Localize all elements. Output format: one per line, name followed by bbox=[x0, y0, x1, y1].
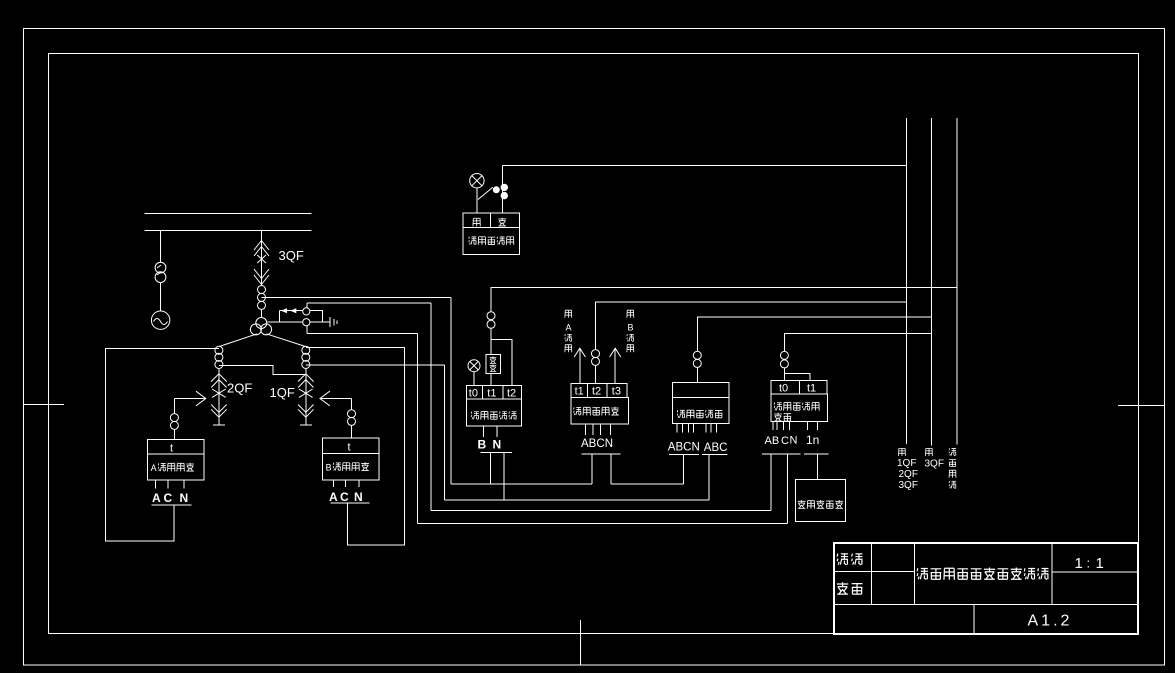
零序 underline right bbox=[804, 453, 828, 455]
CT oval A branch bbox=[170, 414, 178, 430]
wire oval to header 零序 bbox=[784, 368, 786, 380]
wire E stub up from PT top bbox=[306, 303, 308, 308]
wire gas right leg bbox=[502, 166, 504, 214]
wire 通风 feed bbox=[491, 287, 957, 311]
label 厂用备用变保护配置图 bbox=[917, 567, 1048, 579]
box B terminals bbox=[334, 480, 360, 487]
差动 terminals bbox=[677, 423, 716, 432]
label 跳3QF bbox=[925, 448, 944, 469]
wire CT interconnect step bbox=[219, 366, 306, 375]
CT stack 3QF bbox=[258, 286, 266, 310]
wire CT to breaker 2QF bbox=[218, 369, 220, 390]
svg-text:C: C bbox=[781, 435, 789, 447]
wire PT pair to ground bbox=[310, 321, 330, 323]
wire oval to box B bbox=[351, 425, 353, 438]
wire arrow corner to CT oval A bbox=[173, 399, 175, 414]
svg-text:A: A bbox=[566, 323, 572, 333]
svg-text:1: 1 bbox=[1096, 555, 1104, 572]
wire D vertical bbox=[444, 365, 446, 500]
wire arrow line bbox=[279, 310, 302, 312]
svg-text:N: N bbox=[605, 438, 613, 450]
wire oval to box A bbox=[173, 429, 175, 439]
svg-text:B: B bbox=[326, 463, 332, 473]
svg-text:C: C bbox=[340, 490, 349, 504]
wire 零序 to U4 bbox=[786, 454, 788, 524]
breaker 3QF symbol bbox=[254, 241, 269, 285]
svg-text:2QF: 2QF bbox=[899, 469, 918, 480]
breaker 1QF symbol bbox=[298, 374, 314, 425]
label 校核 bbox=[837, 582, 863, 594]
wire lamp drop bbox=[476, 188, 478, 213]
wire 1n to 电压操作箱 bbox=[817, 454, 819, 479]
relay box 商备变过流 bbox=[571, 383, 629, 423]
wire oval to 油温 bbox=[490, 328, 492, 354]
wire 通风 to U1 bbox=[490, 453, 492, 484]
svg-text:B: B bbox=[478, 438, 487, 452]
bus U4 bbox=[418, 523, 788, 525]
svg-text:t: t bbox=[170, 443, 173, 455]
relay box B分支过流 bbox=[322, 438, 379, 480]
svg-text:t0: t0 bbox=[469, 388, 478, 400]
wire 差动 to seg2 bbox=[683, 455, 685, 485]
过流 underline bbox=[582, 453, 621, 455]
node cluster junction bbox=[250, 318, 271, 335]
wire diagonal to 2QF bbox=[219, 334, 257, 347]
box 油温 bbox=[486, 354, 501, 373]
label 厂用切换 bbox=[949, 448, 956, 488]
wire transformer to source bbox=[160, 283, 162, 311]
svg-text:t2: t2 bbox=[592, 386, 601, 398]
label 商备变差动 bbox=[677, 410, 722, 418]
wire B vertical bbox=[417, 334, 419, 524]
transformer T1 bbox=[155, 262, 166, 282]
svg-text:t3: t3 bbox=[612, 386, 621, 398]
wire oval to header 过流 bbox=[595, 365, 597, 383]
零序 underline left bbox=[762, 453, 801, 455]
svg-text:3QF: 3QF bbox=[279, 248, 304, 263]
trip bus v2 bbox=[931, 118, 933, 446]
lamp 通风 bbox=[468, 360, 480, 372]
trip bus v1 bbox=[905, 118, 907, 444]
CT oval 通风 bbox=[487, 312, 495, 329]
label B分支过流 bbox=[326, 462, 369, 472]
CT oval 过流 bbox=[592, 350, 600, 366]
svg-text:t1: t1 bbox=[807, 383, 816, 395]
wire E horizontal bbox=[307, 302, 431, 304]
box A collect underline bbox=[152, 504, 192, 506]
bus U1 bbox=[451, 483, 592, 485]
svg-text:1n: 1n bbox=[806, 433, 819, 447]
svg-text:t: t bbox=[348, 442, 351, 454]
CT oval B branch bbox=[348, 410, 356, 426]
wire box A loop bbox=[106, 349, 219, 541]
border left center tick bbox=[24, 404, 65, 406]
label 商备变零序 bbox=[774, 403, 819, 411]
border right center tick bbox=[1118, 405, 1165, 407]
CT stack 1QF bbox=[302, 346, 310, 368]
svg-text:ABC: ABC bbox=[704, 442, 728, 454]
svg-text:AB: AB bbox=[765, 435, 780, 447]
PT circle bottom bbox=[303, 319, 310, 326]
ground symbol bbox=[330, 317, 337, 327]
差动 underline left bbox=[669, 454, 699, 456]
AC source G bbox=[151, 311, 169, 329]
border bottom center tick bbox=[580, 620, 582, 665]
svg-text:1: 1 bbox=[1075, 555, 1083, 572]
wire arrow corner to CT oval B bbox=[351, 399, 353, 410]
label 跳A分支 bbox=[565, 310, 572, 352]
svg-text:A: A bbox=[329, 490, 338, 504]
bus line 2 bbox=[145, 230, 312, 232]
breaker 2QF symbol bbox=[211, 374, 227, 425]
label 商备变过流 bbox=[574, 407, 619, 416]
svg-text:N: N bbox=[354, 490, 363, 504]
flag contacts bbox=[493, 184, 507, 199]
switch diagonal bbox=[478, 187, 493, 199]
零序 terminals bbox=[773, 422, 818, 430]
wire B horizontal bbox=[307, 333, 418, 335]
wire stub up bbox=[278, 311, 280, 323]
lamp 瓦斯 bbox=[470, 174, 484, 188]
label 跳1QF2QF3QF bbox=[897, 448, 918, 491]
bus U2 bbox=[445, 499, 710, 501]
svg-text:N: N bbox=[493, 438, 502, 452]
relay box 商备变零序接地 bbox=[771, 380, 828, 421]
label A分支过流 bbox=[151, 463, 194, 473]
wire CT to breaker 1QF bbox=[305, 369, 307, 390]
svg-text:ABC: ABC bbox=[581, 438, 605, 450]
relay box A分支过流 bbox=[147, 439, 204, 480]
wire split to t1 零序 bbox=[785, 374, 810, 381]
wire 过流 feed bbox=[596, 302, 907, 350]
label 油温 bbox=[490, 356, 497, 371]
svg-text:t1: t1 bbox=[575, 386, 584, 398]
wire source drop bbox=[160, 231, 162, 263]
label 电压操作箱 bbox=[798, 500, 843, 509]
wire oval to box 差动 bbox=[696, 367, 698, 382]
relay box 商备变通风 bbox=[466, 386, 521, 426]
wire 差动 feed bbox=[697, 317, 931, 351]
wire 过流 N to seg2 bbox=[610, 454, 612, 484]
CT stack 2QF bbox=[215, 346, 223, 368]
svg-text::: : bbox=[1087, 556, 1091, 571]
wire diagonal to 1QF bbox=[266, 334, 306, 347]
wire A vertical bbox=[450, 297, 452, 484]
svg-text:3QF: 3QF bbox=[899, 480, 918, 491]
svg-text:A1.2: A1.2 bbox=[1028, 613, 1073, 630]
label 商备变通风 bbox=[471, 412, 516, 420]
bus U1b bbox=[611, 483, 684, 485]
arrow into 2QF bbox=[174, 391, 205, 406]
bus U3 bbox=[431, 510, 771, 512]
label 商备变瓦斯 bbox=[469, 237, 514, 245]
通风 underline bbox=[481, 452, 512, 454]
wire split to t2 bbox=[491, 340, 512, 386]
svg-text:A: A bbox=[151, 463, 157, 473]
CT oval 零序 bbox=[780, 351, 788, 368]
通风 terminals bbox=[484, 426, 497, 437]
wire 差动 to U2 bbox=[708, 455, 710, 501]
wire PT top right loop bbox=[310, 311, 323, 323]
box 电压操作箱 bbox=[795, 479, 845, 521]
svg-text:t1: t1 bbox=[487, 388, 496, 400]
title block frame bbox=[834, 543, 1138, 634]
arrow into 1QF bbox=[320, 391, 352, 406]
label 制图 bbox=[837, 554, 862, 565]
svg-text:N: N bbox=[790, 435, 798, 447]
svg-text:A: A bbox=[152, 491, 161, 505]
wire D horizontal bbox=[306, 364, 445, 366]
svg-text:1QF: 1QF bbox=[897, 458, 916, 469]
label 重 bbox=[498, 218, 506, 226]
wire gas to trip bus v1 bbox=[503, 165, 907, 167]
arrow glyph 2 bbox=[290, 308, 296, 313]
wire cluster to PT pair bbox=[268, 321, 303, 323]
wire 3QF CT to cluster bbox=[261, 309, 263, 318]
arrow glyph 1 bbox=[281, 308, 287, 313]
label 跳B分支 bbox=[627, 310, 634, 352]
wire E vertical bbox=[430, 303, 432, 511]
bus line 1 bbox=[145, 213, 312, 215]
过流 terminals bbox=[585, 424, 610, 435]
差动 underline right bbox=[702, 454, 728, 456]
PT circle top bbox=[303, 308, 310, 315]
svg-text:t0: t0 bbox=[779, 383, 788, 395]
wire bus to 3QF bbox=[261, 231, 263, 286]
svg-text:B: B bbox=[628, 323, 634, 333]
box A terminals bbox=[156, 480, 185, 489]
label 轻 bbox=[473, 218, 480, 226]
wire lamp to header bbox=[473, 372, 475, 386]
svg-text:C: C bbox=[164, 491, 173, 505]
wire box B loop to wire C bbox=[306, 348, 405, 546]
box B collect underline bbox=[331, 502, 370, 504]
wire A horizontal bbox=[262, 296, 452, 298]
svg-text:N: N bbox=[180, 491, 189, 505]
trip arrow A bbox=[574, 348, 585, 383]
relay box 商备变差动 bbox=[672, 382, 729, 423]
trip arrow B bbox=[610, 348, 621, 383]
svg-text:2QF: 2QF bbox=[227, 381, 252, 396]
svg-text:1QF: 1QF bbox=[270, 385, 295, 400]
wire 过流 to U1 bbox=[591, 454, 593, 484]
wire B stub down from PT bottom bbox=[306, 326, 308, 334]
border inner frame bbox=[49, 54, 1139, 634]
svg-text:3QF: 3QF bbox=[925, 459, 944, 470]
relay box 商备变瓦斯 bbox=[463, 213, 520, 254]
wire 油温 to header bbox=[490, 374, 492, 386]
wire 通风 to U2 bbox=[503, 453, 505, 500]
svg-text:ABCN: ABCN bbox=[668, 442, 700, 454]
label 接地 bbox=[774, 413, 791, 421]
svg-text:t2: t2 bbox=[507, 388, 516, 400]
CT oval 差动 bbox=[693, 351, 701, 367]
wire 零序 to U3 bbox=[770, 454, 772, 511]
trip bus v3 bbox=[956, 118, 958, 445]
wire 零序 feed bbox=[785, 334, 932, 352]
